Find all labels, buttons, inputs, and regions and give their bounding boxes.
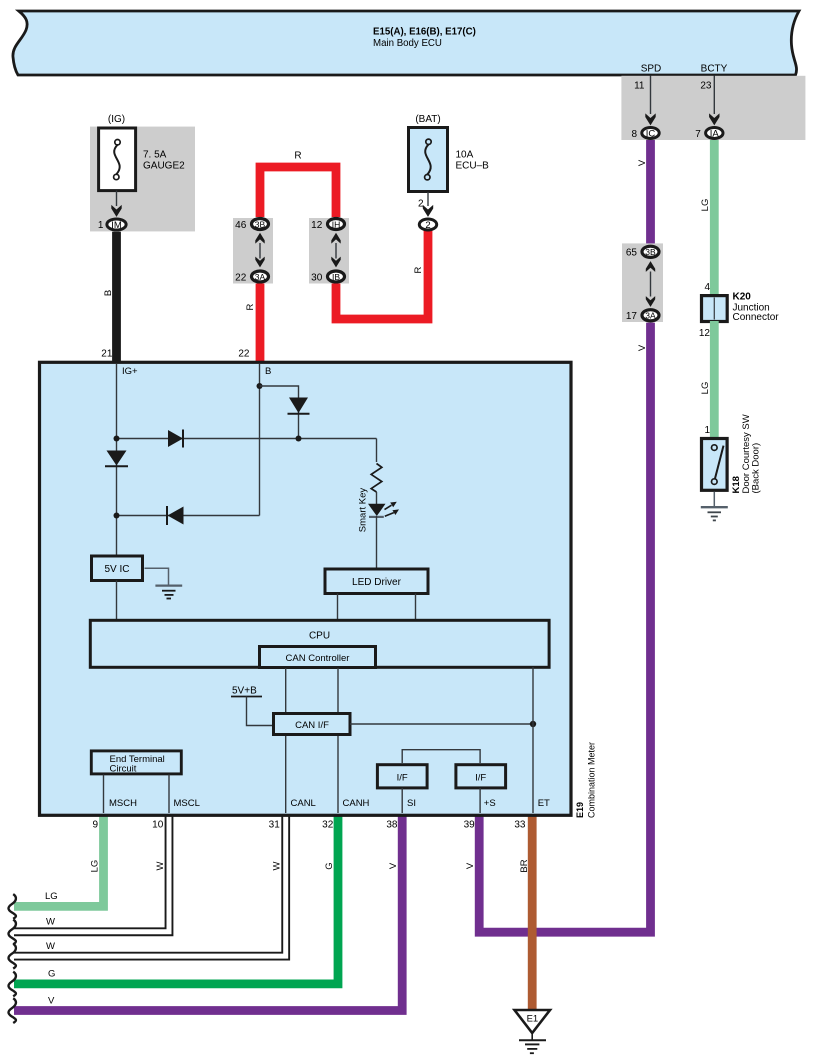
- wire B vertical: [259, 364, 261, 516]
- wire B black IM to pin 21: [112, 232, 121, 361]
- svg-text:39: 39: [464, 820, 476, 831]
- CAN Controller box: [260, 647, 376, 668]
- connector 65 3B: [642, 246, 659, 257]
- connector 12 IH: [328, 219, 345, 230]
- junction arrows 3B to 3A: [259, 243, 261, 259]
- connector 46 3B: [252, 219, 269, 230]
- arrow into IA: [709, 113, 719, 125]
- ground E1: [515, 1010, 551, 1033]
- fuse 10A ECU-B body: [409, 128, 448, 192]
- svg-text:CPU: CPU: [309, 631, 330, 642]
- svg-text:I/F: I/F: [397, 772, 408, 783]
- wires ETC to MSCH/MSCL: [103, 775, 105, 814]
- connector shield box (gray) 3B/3A right: [622, 243, 663, 322]
- svg-text:IA: IA: [710, 129, 720, 140]
- svg-text:Connector: Connector: [733, 312, 780, 323]
- connector 1 IM: [107, 219, 126, 230]
- junction connector K20: [702, 296, 728, 322]
- svg-text:I/F: I/F: [475, 772, 486, 783]
- connector 22 3A: [252, 271, 269, 282]
- junction arrows 3B to 3A right: [650, 272, 652, 297]
- svg-text:7: 7: [695, 129, 701, 140]
- svg-text:MSCL: MSCL: [174, 798, 200, 809]
- svg-text:(Back Door): (Back Door): [751, 443, 762, 494]
- svg-text:G: G: [324, 862, 335, 869]
- svg-text:17: 17: [626, 311, 638, 322]
- svg-text:22: 22: [238, 349, 250, 360]
- svg-text:IH: IH: [332, 219, 341, 229]
- diode D4 (left pointing): [168, 507, 184, 525]
- svg-text:V: V: [48, 995, 55, 1006]
- wire V purple 3A to pin 39 +S: [479, 323, 650, 933]
- door courtesy switch K18: [702, 439, 728, 491]
- wire BCTY pin 23 to IA: [713, 76, 715, 115]
- svg-text:B: B: [103, 290, 114, 296]
- svg-text:W: W: [46, 941, 55, 952]
- wire BR pin 33 to E1: [528, 814, 537, 1009]
- svg-text:LED Driver: LED Driver: [352, 577, 402, 588]
- wire CAN I/F to ET line: [350, 723, 533, 725]
- LED Driver box: [325, 569, 428, 594]
- resistor R smart key: [371, 464, 382, 493]
- connector 2: [419, 219, 436, 230]
- CPU box: [90, 620, 549, 667]
- wire horizontal diode row: [117, 438, 377, 440]
- svg-text:CANL: CANL: [291, 798, 316, 809]
- svg-text:IC: IC: [646, 129, 656, 140]
- svg-text:Main Body ECU: Main Body ECU: [373, 38, 442, 49]
- svg-text:BCTY: BCTY: [701, 64, 728, 75]
- svg-text:CAN I/F: CAN I/F: [295, 720, 329, 731]
- svg-text:11: 11: [634, 81, 645, 92]
- svg-text:R: R: [294, 151, 301, 162]
- svg-text:1: 1: [98, 220, 104, 231]
- svg-text:7. 5A: 7. 5A: [143, 150, 167, 161]
- svg-text:R: R: [413, 266, 424, 273]
- svg-text:LG: LG: [700, 199, 711, 212]
- svg-text:32: 32: [322, 820, 334, 831]
- svg-text:LG: LG: [700, 382, 711, 395]
- svg-text:8: 8: [631, 129, 637, 140]
- svg-text:R: R: [245, 303, 256, 310]
- fuse element BAT: [425, 144, 430, 174]
- svg-text:SI: SI: [407, 798, 416, 809]
- wire resistor to LED: [376, 492, 378, 504]
- wire IG+ vertical: [116, 364, 118, 557]
- svg-text:5V+B: 5V+B: [232, 686, 257, 697]
- connector 8 IC: [642, 128, 659, 139]
- I/F box right: [456, 765, 506, 788]
- wire break G: [9, 972, 16, 997]
- node junction dot ET: [530, 721, 536, 727]
- wire V purple IC to 3B: [646, 140, 655, 245]
- connector 30 IB: [328, 271, 345, 282]
- svg-text:38: 38: [386, 820, 398, 831]
- svg-text:Smart Key: Smart Key: [358, 488, 369, 533]
- fuse 7.5A GAUGE2 body: [99, 128, 136, 191]
- svg-text:Combination Meter: Combination Meter: [587, 742, 597, 818]
- svg-text:W: W: [155, 861, 166, 870]
- svg-text:LG: LG: [45, 891, 58, 902]
- connector 7 IA: [706, 128, 723, 139]
- svg-text:2: 2: [418, 199, 424, 210]
- node junction dot D3: [296, 436, 302, 442]
- ground below K18: [713, 492, 715, 507]
- wire horizontal diode D4 row: [117, 515, 260, 517]
- junction arrows IH to IB: [335, 243, 337, 259]
- wire R red 3A to pin 22: [256, 284, 265, 362]
- svg-text:12: 12: [311, 220, 323, 231]
- svg-text:IB: IB: [332, 272, 340, 282]
- Main Body ECU banner E15/E16/E17: [13, 11, 799, 75]
- svg-text:LG: LG: [89, 860, 100, 873]
- wire LG K20 to K18: [710, 321, 719, 438]
- wire R red 3B to IH: [260, 167, 336, 217]
- wire ET vertical: [532, 667, 534, 813]
- svg-text:30: 30: [311, 272, 323, 283]
- arrow into connector 2: [423, 205, 433, 217]
- svg-text:21: 21: [101, 349, 113, 360]
- bracket I/F pair: [402, 750, 480, 763]
- svg-text:(BAT): (BAT): [415, 114, 440, 125]
- svg-text:31: 31: [269, 820, 281, 831]
- ground from 5V IC: [145, 568, 169, 585]
- wire V pin 38 to left: [14, 814, 402, 1011]
- svg-text:V: V: [465, 862, 476, 869]
- wire break LG: [9, 894, 16, 919]
- wire B branch to diode D3: [260, 386, 299, 439]
- connector shield box (gray) 3B/3A: [233, 218, 273, 284]
- wire R red IB to fuse ECU-B connector 2: [336, 230, 428, 319]
- svg-text:Circuit: Circuit: [110, 764, 137, 775]
- svg-text:65: 65: [626, 248, 638, 259]
- svg-text:V: V: [637, 159, 648, 166]
- svg-text:9: 9: [92, 820, 98, 831]
- wire CANL line: [285, 668, 287, 813]
- svg-text:IG+: IG+: [122, 366, 138, 377]
- svg-text:E15(A), E16(B), E17(C): E15(A), E16(B), E17(C): [373, 27, 476, 38]
- svg-text:K20: K20: [733, 292, 752, 303]
- arrow into IC: [645, 113, 655, 125]
- wire LG pin 9 to left: [14, 814, 104, 906]
- svg-text:3A: 3A: [255, 272, 266, 282]
- 5V IC box: [92, 556, 143, 581]
- svg-text:12: 12: [699, 328, 711, 339]
- svg-text:(IG): (IG): [108, 114, 125, 125]
- connector shield box (gray) IH/IB: [309, 218, 349, 284]
- combination meter box border: [40, 362, 572, 815]
- combination meter E19 box: [40, 362, 572, 815]
- svg-text:10: 10: [152, 820, 164, 831]
- svg-text:W: W: [271, 861, 282, 870]
- wire break W: [9, 920, 16, 945]
- svg-text:IM: IM: [111, 220, 122, 231]
- svg-text:SPD: SPD: [641, 64, 662, 75]
- arrow into IM: [111, 205, 121, 217]
- svg-text:W: W: [46, 917, 55, 928]
- diode D3 (down pointing on branch): [289, 398, 308, 414]
- CAN I/F box: [274, 714, 351, 735]
- wire break W2: [9, 944, 16, 969]
- node junction dot low: [114, 513, 120, 519]
- svg-text:1: 1: [704, 425, 710, 436]
- diode D1 (right pointing): [168, 430, 183, 447]
- svg-text:3A: 3A: [645, 311, 656, 321]
- svg-text:3B: 3B: [645, 247, 656, 257]
- connector 17 3A: [642, 310, 659, 321]
- svg-text:CAN Controller: CAN Controller: [286, 653, 350, 664]
- svg-text:B: B: [265, 366, 271, 377]
- End Terminal Circuit box: [91, 751, 181, 774]
- LED smart key: [368, 504, 386, 516]
- node junction dot B: [257, 383, 263, 389]
- wire fuse BAT to connector 2: [427, 192, 429, 206]
- svg-text:V: V: [388, 862, 399, 869]
- fuse shield box (gray) IG: [90, 127, 195, 232]
- svg-text:MSCH: MSCH: [109, 798, 137, 809]
- wires LED Driver to CPU: [337, 594, 339, 621]
- svg-text:2: 2: [425, 220, 430, 231]
- wire 5V IC to CPU: [116, 581, 118, 621]
- wire fuse IG to IM: [116, 191, 118, 206]
- svg-text:46: 46: [235, 220, 247, 231]
- svg-text:ET: ET: [538, 798, 550, 809]
- svg-text:3B: 3B: [255, 219, 266, 229]
- wire LG IA to K20: [710, 140, 719, 296]
- svg-text:V: V: [637, 344, 648, 351]
- wires I/F to pins: [401, 788, 403, 813]
- node junction dot: [114, 436, 120, 442]
- wire break V: [9, 998, 16, 1023]
- fuse element IG: [114, 145, 119, 175]
- svg-text:BR: BR: [519, 859, 530, 872]
- wire LED to LED Driver: [376, 516, 378, 568]
- I/F box left: [377, 765, 427, 788]
- svg-text:G: G: [48, 969, 55, 980]
- svg-text:+S: +S: [484, 798, 496, 809]
- svg-text:CANH: CANH: [343, 798, 370, 809]
- svg-text:33: 33: [514, 820, 526, 831]
- svg-text:GAUGE2: GAUGE2: [143, 161, 185, 172]
- svg-text:ECU–B: ECU–B: [456, 161, 490, 172]
- svg-text:5V IC: 5V IC: [104, 564, 129, 575]
- svg-text:10A: 10A: [456, 150, 474, 161]
- svg-text:4: 4: [704, 282, 710, 293]
- wire G pin 32 to left: [14, 814, 338, 984]
- connector shield box (gray) top right: [621, 76, 805, 140]
- wire W pin 10 to left: [14, 814, 169, 932]
- wire CANH line: [337, 668, 339, 813]
- wire W pin 31 to left: [14, 814, 286, 956]
- svg-text:E19: E19: [575, 802, 585, 818]
- wire SPD pin 11 to IC: [650, 76, 652, 115]
- svg-text:23: 23: [700, 81, 712, 92]
- svg-text:22: 22: [235, 272, 247, 283]
- diode D2 (down pointing on IG+): [107, 451, 127, 466]
- wire smart key branch down: [376, 439, 378, 463]
- svg-text:E1: E1: [527, 1014, 539, 1025]
